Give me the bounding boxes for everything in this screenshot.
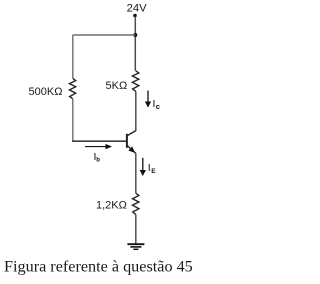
- wire left branch vertical down to 500K resistor: [72, 35, 74, 78]
- svg-text:1,2KΩ: 1,2KΩ: [96, 200, 127, 212]
- resistor R3 1,2KΩ zigzag: [133, 193, 139, 214]
- wire left branch vertical below 500K down to base corner: [72, 99, 74, 141]
- svg-text:24V: 24V: [127, 3, 148, 15]
- transistor Q1 base bar: [126, 134, 128, 148]
- svg-text:c: c: [156, 102, 160, 111]
- resistor R2 5KΩ zigzag: [132, 71, 138, 92]
- arrow Ib current (right): [85, 144, 112, 149]
- transistor Q1 emitter arrowhead: [128, 146, 135, 152]
- wire emitter vertical down to 1.2K resistor: [135, 153, 137, 193]
- transistor Q1 emitter diagonal: [127, 146, 136, 154]
- arrow Ic current (down): [145, 91, 151, 108]
- wire top horizontal rail to left branch: [73, 34, 136, 36]
- svg-text:E: E: [151, 168, 156, 175]
- svg-text:5KΩ: 5KΩ: [106, 80, 128, 92]
- wire base horizontal to transistor: [72, 140, 127, 142]
- node 24V terminal dot: [133, 14, 137, 18]
- svg-text:500KΩ: 500KΩ: [29, 86, 63, 98]
- transistor Q1 collector diagonal: [127, 131, 136, 136]
- wire collector vertical below 5K resistor: [135, 91, 137, 131]
- node junction dot at top rail: [133, 33, 137, 37]
- arrow Ie current (down): [140, 158, 146, 176]
- wire emitter branch down to ground: [135, 214, 137, 243]
- wire 24V dot to junction (vertical, right branch top): [134, 17, 136, 71]
- resistor R1 500KΩ zigzag: [69, 78, 75, 98]
- svg-text:b: b: [96, 158, 100, 164]
- svg-text:Figura referente à questão 45: Figura referente à questão 45: [4, 258, 193, 276]
- ground symbol: [127, 244, 144, 249]
